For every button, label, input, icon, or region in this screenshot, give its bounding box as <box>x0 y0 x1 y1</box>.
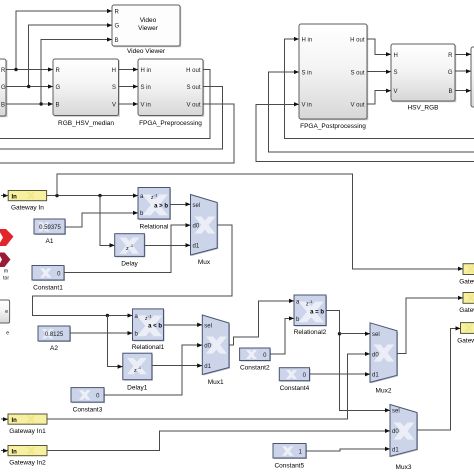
svg-text:Constant1: Constant1 <box>33 285 63 292</box>
wire source R to RGB_HSV_median R <box>6 69 53 71</box>
wire branch to Delay1 input <box>107 316 122 367</box>
wire Constant1 to Mux d0 <box>64 225 190 273</box>
wire FPGA_Postprocessing S out to HSV_RGB S <box>367 71 391 73</box>
wire Mux3 output to Gateway Out3 <box>417 328 460 430</box>
svg-text:d1: d1 <box>204 364 211 370</box>
wire source G to RGB_HSV_median G <box>6 86 53 88</box>
block video source (cut at left edge) <box>0 59 7 117</box>
System Generator token (cut at left edge) <box>0 229 14 282</box>
wire FPGA_Postprocessing H out to HSV_RGB H <box>367 39 391 54</box>
svg-text:In: In <box>12 418 18 424</box>
svg-text:Gateway In: Gateway In <box>11 205 44 212</box>
wire A1 to Relational b <box>65 213 138 227</box>
svg-text:sel: sel <box>204 323 212 329</box>
svg-text:B: B <box>1 102 5 108</box>
wire branch to Video Viewer G <box>29 25 112 86</box>
node junction relational2 branch <box>338 332 341 335</box>
svg-text:A1: A1 <box>46 238 54 245</box>
node junction B <box>39 102 42 105</box>
svg-text:Viewer: Viewer <box>138 25 159 32</box>
block FPGA_Postprocessing U3 <box>299 24 368 130</box>
wire branch to Video Viewer B <box>41 40 111 105</box>
svg-text:Relational2: Relational2 <box>294 329 327 336</box>
mux Mux1 <box>202 315 230 386</box>
mux Mux2 <box>370 323 398 395</box>
svg-text:Constant4: Constant4 <box>280 385 310 392</box>
wire source B to RGB_HSV_median B <box>6 103 53 105</box>
svg-text:Video: Video <box>140 17 157 24</box>
node junction gateway-in branch <box>55 194 58 197</box>
block Delay1 <box>123 353 153 391</box>
svg-text:Gateway Out1: Gateway Out1 <box>459 279 474 286</box>
svg-text:G: G <box>448 70 453 76</box>
svg-text:S: S <box>112 85 116 91</box>
svg-text:G: G <box>1 85 6 91</box>
svg-text:d0: d0 <box>193 224 200 230</box>
constant Constant4 <box>279 368 310 392</box>
svg-text:H in: H in <box>302 38 313 44</box>
wire Constant4 to Mux2 d1 <box>310 373 370 375</box>
wire Gateway In1 to Mux2 d0 <box>47 354 370 419</box>
svg-text:Mux2: Mux2 <box>376 388 392 395</box>
svg-text:S in: S in <box>141 85 151 91</box>
block estimator (cut at left edge) <box>0 300 10 337</box>
wire HSV_RGB G to sink <box>455 70 471 72</box>
block Delay <box>115 234 146 268</box>
gateway Gateway In1 <box>8 414 47 435</box>
svg-text:d0: d0 <box>372 352 379 358</box>
mux Mux3 <box>390 405 418 472</box>
wire RGB_HSV_median H to FPGA_Preprocessing H in <box>119 69 138 71</box>
wire Constant2 to Relational2 b <box>270 318 294 354</box>
svg-text:B: B <box>448 89 452 95</box>
wire HSV_RGB B to sink <box>455 90 471 92</box>
svg-text:a > b: a > b <box>154 204 168 210</box>
wire Mux1 output to Relational2 a <box>229 301 294 345</box>
wire input stub to Gateway In <box>1 195 8 197</box>
wire HSV_RGB R to sink <box>455 53 471 55</box>
wire branch to Video Viewer R <box>16 11 112 70</box>
svg-text:Video Viewer: Video Viewer <box>127 48 166 55</box>
node junction delay branch <box>98 194 101 197</box>
constant A2 <box>38 326 71 352</box>
svg-text:Relational1: Relational1 <box>132 344 165 351</box>
gateway Gateway Out2 (cut at right edge) <box>459 293 474 315</box>
block HSV_RGB U4 <box>391 44 456 112</box>
svg-text:e: e <box>5 309 8 315</box>
wire RGB_HSV_median V to FPGA_Preprocessing V in <box>119 103 138 105</box>
constant Constant2 <box>240 348 271 372</box>
wire Constant3 to Mux1 d0 <box>104 345 202 395</box>
svg-text:S out: S out <box>186 85 200 91</box>
block Relational2 <box>294 295 327 336</box>
svg-text:Mux: Mux <box>198 259 211 266</box>
block Video Viewer <box>112 5 181 55</box>
svg-text:d0: d0 <box>204 344 211 350</box>
wire Relational1 to Mux1 sel <box>164 324 202 326</box>
svg-text:B: B <box>56 102 60 108</box>
gateway Gateway Out1 (cut at right edge) <box>459 264 474 286</box>
wire input stub to Gateway In2 <box>1 450 8 452</box>
svg-text:a < b: a < b <box>148 324 162 330</box>
svg-text:H: H <box>112 68 116 74</box>
svg-text:sel: sel <box>193 203 201 209</box>
svg-text:S in: S in <box>302 71 312 77</box>
constant A1 <box>34 219 66 245</box>
svg-text:Relational: Relational <box>140 224 169 231</box>
svg-text:V: V <box>394 89 398 95</box>
wire Delay1 to Mux1 d1 <box>152 365 202 367</box>
node junction R <box>14 68 17 71</box>
svg-text:A2: A2 <box>50 345 58 352</box>
svg-text:Delay1: Delay1 <box>127 385 148 392</box>
svg-text:Mux1: Mux1 <box>208 379 224 386</box>
svg-text:Gateway In2: Gateway In2 <box>9 460 46 467</box>
svg-text:Constant5: Constant5 <box>274 463 304 470</box>
svg-text:V in: V in <box>302 103 312 109</box>
wire FPGA_Preprocessing V out going off left edge <box>0 104 234 163</box>
constant Constant3 <box>71 388 105 414</box>
block video sink (cut at right edge) <box>471 47 474 107</box>
constant Constant1 <box>32 266 65 292</box>
mux Mux <box>191 195 219 267</box>
svg-text:In: In <box>12 449 18 455</box>
svg-text:sel: sel <box>392 409 400 415</box>
svg-text:H in: H in <box>141 68 152 74</box>
svg-text:d0: d0 <box>392 429 399 435</box>
wire Gateway In to Relational a <box>47 195 138 197</box>
node junction G <box>27 85 30 88</box>
wire input stub to Gateway In1 <box>1 418 8 420</box>
svg-text:H: H <box>394 53 398 59</box>
wire branch to Mux2 sel <box>340 333 370 335</box>
wire Mux output loop to Relational1 a <box>32 225 232 315</box>
svg-text:tor: tor <box>3 276 9 282</box>
wire FPGA_Preprocessing S out going off left edge <box>0 87 223 150</box>
svg-text:R: R <box>1 68 6 74</box>
svg-text:m: m <box>4 269 8 275</box>
svg-text:R: R <box>448 53 453 59</box>
svg-text:e: e <box>6 331 9 337</box>
wire from right edge to FPGA_Postprocessing V in <box>256 104 474 161</box>
block Relational1 <box>132 309 165 351</box>
svg-text:V in: V in <box>141 102 151 108</box>
svg-text:Gateway In1: Gateway In1 <box>9 428 46 435</box>
wire Mux2 output to Gateway Out2 <box>397 298 463 354</box>
svg-text:d1: d1 <box>372 373 379 379</box>
svg-text:Constant3: Constant3 <box>73 407 103 414</box>
svg-text:HSV_RGB: HSV_RGB <box>407 105 438 112</box>
wire from right edge to FPGA_Postprocessing S in <box>269 72 474 152</box>
wire Delay to Mux d1 <box>144 244 190 246</box>
wire branch to Delay input <box>100 196 114 246</box>
svg-text:sel: sel <box>372 332 380 338</box>
wire Gateway In branch to Gateway Out1 <box>57 174 463 269</box>
svg-text:FPGA_Postprocessing: FPGA_Postprocessing <box>300 123 366 130</box>
svg-text:Gateway Out2: Gateway Out2 <box>459 307 474 314</box>
gateway Gateway Out3 (cut at right edge) <box>457 323 474 345</box>
svg-text:Constant2: Constant2 <box>240 365 270 372</box>
svg-text:H out: H out <box>186 68 201 74</box>
svg-text:G: G <box>56 85 61 91</box>
svg-text:R: R <box>115 9 120 15</box>
svg-text:In: In <box>12 194 18 200</box>
svg-text:FPGA_Preprocessing: FPGA_Preprocessing <box>139 120 202 127</box>
block Relational <box>138 188 171 231</box>
svg-text:S: S <box>394 70 398 76</box>
wire Relational2 to Mux3 sel <box>326 310 390 410</box>
svg-text:H out: H out <box>350 38 365 44</box>
svg-text:a = b: a = b <box>310 310 324 316</box>
wire from right edge to FPGA_Postprocessing H in <box>285 39 474 138</box>
gateway Gateway In <box>8 191 46 212</box>
svg-text:V out: V out <box>350 103 364 109</box>
block FPGA_Preprocessing U2 <box>138 59 204 127</box>
wire RGB_HSV_median S to FPGA_Preprocessing S in <box>119 86 138 88</box>
wire FPGA_Preprocessing H out going off left edge <box>0 70 210 139</box>
svg-text:Mux3: Mux3 <box>396 464 412 471</box>
wire Relational to Mux sel <box>170 203 190 205</box>
svg-text:G: G <box>115 24 120 30</box>
svg-text:V: V <box>112 102 116 108</box>
svg-text:RGB_HSV_median: RGB_HSV_median <box>58 120 114 127</box>
gateway Gateway In2 <box>8 446 47 467</box>
node junction delay1 branch <box>106 314 109 317</box>
wire Constant5 to Mux3 d1 <box>306 449 390 451</box>
svg-text:0.8125: 0.8125 <box>45 332 64 338</box>
svg-text:Delay: Delay <box>121 261 138 268</box>
svg-text:Gateway Out3: Gateway Out3 <box>457 338 474 345</box>
block RGB_HSV_median U1 <box>53 59 120 127</box>
svg-text:B: B <box>115 38 119 44</box>
svg-text:d1: d1 <box>193 244 200 250</box>
wire FPGA_Postprocessing V out to HSV_RGB V <box>367 91 391 104</box>
svg-text:d1: d1 <box>392 447 399 453</box>
svg-text:V out: V out <box>186 102 200 108</box>
wire Gateway In2 to Mux3 d0 <box>47 431 390 451</box>
constant Constant5 <box>273 444 307 470</box>
wire A2 to Relational1 b <box>70 332 132 334</box>
svg-text:R: R <box>56 68 61 74</box>
svg-text:0.59375: 0.59375 <box>39 225 61 231</box>
svg-text:S out: S out <box>350 71 364 77</box>
